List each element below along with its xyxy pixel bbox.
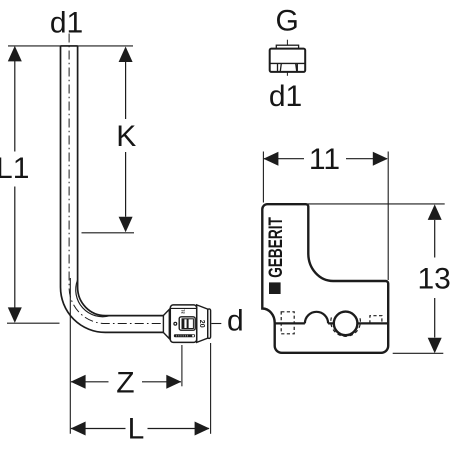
block parting line [275,322,388,324]
13 bottom arrowhead [428,338,442,354]
dashed rect left [281,312,294,334]
svg-text:13: 13 [418,263,450,296]
block circle [334,312,358,336]
indicator insert [182,319,193,329]
svg-text:L: L [128,413,145,446]
fitting body inner top line [171,307,197,309]
top reference line [8,45,133,47]
13 top arrowhead [428,204,442,220]
dimension L1 line [14,61,16,308]
geberit logo square [269,282,281,294]
L right extension line [210,343,212,434]
Z right arrowhead [166,375,181,389]
G symbol body [270,49,306,72]
pipe bend wall line [76,280,110,317]
L1 top arrowhead [8,46,22,62]
svg-text:31: 31 [181,309,186,314]
L left arrowhead [71,422,86,436]
Z right extension line [181,345,183,386]
indicator window [179,317,195,330]
13 top extension line [308,203,445,205]
G symbol bottom dividers [278,64,298,72]
Z L left extension line [69,278,71,434]
svg-text:11: 11 [309,143,340,176]
pipe top end cap [61,45,78,47]
K reference line [82,232,135,234]
11 right extension line [387,152,389,281]
fitting body [170,305,196,343]
13 bottom extension line [393,352,444,354]
label strip notch [192,335,194,337]
bottom-left reference line [7,322,60,324]
13 dimension line [434,220,436,338]
L1 bottom arrowhead [8,307,22,323]
svg-text:G: G [276,5,299,38]
svg-text:d1: d1 [50,6,83,39]
svg-text:d: d [227,305,244,338]
block hump [305,312,328,324]
11 left extension line [262,152,264,203]
dashed circle [331,317,361,336]
svg-text:K: K [116,120,136,153]
indicator black bar 1 [182,319,184,329]
fitting nut [197,305,208,343]
K bottom arrowhead [119,217,133,233]
dimension K line [125,62,127,217]
svg-text:L1: L1 [0,152,29,185]
fitting collar [163,309,169,338]
11 dimension line [264,158,387,160]
svg-text:20: 20 [198,320,205,328]
strip micro ticks [176,335,188,337]
mounting block outline [262,204,388,353]
dimension Z line [71,381,181,383]
pipe centerline dash-dot [69,34,209,324]
G symbol centerline [286,40,288,76]
dimension L line [71,428,209,430]
label strip [174,334,195,337]
G symbol top tab [276,45,298,49]
svg-text:GEBERIT: GEBERIT [265,217,287,278]
11 left arrowhead [263,152,278,166]
11 right arrowhead [373,152,388,166]
svg-text:Z: Z [116,367,134,400]
svg-text:d1: d1 [269,80,302,113]
fitting right cap [208,309,211,339]
G symbol inner line [270,62,306,64]
Z left arrowhead [71,375,86,389]
leader dash to d [211,323,221,325]
L right arrowhead [195,422,210,436]
K top arrowhead [119,47,133,63]
indicator black bar 2 [187,319,189,329]
dashed rect right [370,316,382,324]
pipe elbow inner edge [78,46,164,316]
witness hole [174,322,177,325]
pipe elbow outer edge [61,46,164,333]
